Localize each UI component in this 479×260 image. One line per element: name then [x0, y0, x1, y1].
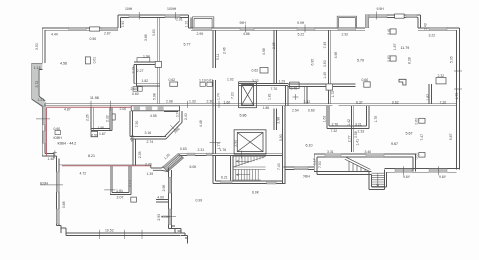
svg-text:2.77: 2.77: [347, 135, 351, 142]
wall bottom y232.8-235.6 x66-183: [66, 233, 183, 236]
wall vert x188 step down: [188, 15, 191, 28]
wall diagonal (181,121.3)-(165,137.5): [165, 121, 182, 139]
svg-text:2.32: 2.32: [438, 74, 445, 78]
svg-text:1.94: 1.94: [143, 55, 150, 59]
small box 2.32: [436, 78, 446, 84]
window left wall upper a: [43, 106, 46, 124]
winsym bathroom: [131, 197, 137, 202]
svg-text:2.40: 2.40: [184, 113, 188, 120]
svg-text:4.72: 4.72: [80, 172, 87, 176]
nook rect 1.94: [137, 58, 150, 62]
svg-text:3.50: 3.50: [35, 43, 39, 50]
wall corridor main y103.7-105.7 x43-456: [43, 104, 457, 106]
svg-text:9.67: 9.67: [391, 142, 398, 146]
window left wall upper b: [43, 131, 46, 143]
svg-text:0.60: 0.60: [152, 29, 156, 36]
svg-text:1.33: 1.33: [189, 99, 196, 103]
svg-text:2.70: 2.70: [332, 122, 339, 126]
wall corridor-south y153.2-155.5 x179.7-282: [180, 153, 283, 155]
svg-text:5.90: 5.90: [279, 134, 283, 141]
svg-text:3.72: 3.72: [35, 81, 39, 88]
L corner symbol: [399, 79, 406, 85]
wall int horiz y83.7-85.9 x134-160: [134, 84, 160, 86]
svg-text:9.5Н: 9.5Н: [377, 7, 385, 11]
svg-text:0.41: 0.41: [387, 28, 391, 35]
wall bottom-right y169 x384-459: [385, 169, 460, 173]
svg-text:0.60: 0.60: [415, 118, 419, 125]
svg-text:0.59: 0.59: [91, 133, 98, 137]
svg-text:0.61: 0.61: [92, 57, 96, 64]
window top-C2: [297, 27, 315, 30]
svg-text:0.60: 0.60: [415, 153, 419, 160]
svg-text:2.08: 2.08: [166, 100, 173, 104]
window left wall w1: [56, 172, 59, 192]
red left: [45, 108, 47, 156]
bay2 outline: [337, 16, 356, 27]
svg-text:7.30: 7.30: [135, 121, 139, 128]
door gray corridor south b: [206, 153, 212, 156]
svg-text:0.70: 0.70: [291, 86, 298, 90]
window bay1 band: [193, 27, 212, 30]
wall core right x282-285 y105-184: [282, 106, 285, 184]
svg-text:2.70: 2.70: [145, 163, 152, 167]
svg-text:1.90: 1.90: [98, 126, 105, 130]
wall divider x274-276 y30-83: [274, 30, 277, 83]
svg-text:8.28: 8.28: [407, 57, 411, 64]
svg-text:2.19: 2.19: [132, 67, 136, 74]
svg-text:7.90: 7.90: [121, 21, 125, 28]
svg-text:6.95: 6.95: [311, 59, 315, 66]
window left wall w2: [56, 209, 59, 224]
svg-text:1.62: 1.62: [322, 116, 326, 123]
wall wc-A vert x91-93 y107.6-130.6: [91, 108, 93, 131]
door gray corridor south a: [187, 153, 195, 156]
svg-text:1.31: 1.31: [184, 20, 188, 27]
svg-text:УВН: УВН: [303, 174, 310, 178]
wall int vert x157.7-159.7 y17.4-105.7: [158, 17, 160, 103]
stairs core lower flight: [233, 169, 261, 180]
svg-text:5.92: 5.92: [130, 135, 134, 142]
wall vestibule horiz y136.6-139.1 x130-166: [130, 137, 166, 140]
window lobby-top-1: [325, 154, 341, 157]
svg-text:2.91: 2.91: [176, 17, 183, 21]
svg-text:10.52: 10.52: [105, 229, 114, 233]
window top-C1: [240, 27, 254, 30]
svg-text:ЮЗН: ЮЗН: [162, 215, 171, 219]
svg-text:0.61: 0.61: [207, 78, 214, 82]
svg-text:3.88: 3.88: [62, 201, 66, 208]
svg-text:2.92: 2.92: [342, 32, 349, 36]
svg-text:3.21: 3.21: [355, 122, 362, 126]
svg-text:0.60: 0.60: [54, 127, 61, 131]
svg-text:ЮВН - 44.2: ЮВН - 44.2: [58, 142, 77, 146]
wall bottom end step: [181, 228, 188, 243]
svg-text:1.76: 1.76: [374, 116, 378, 123]
svg-text:0.99: 0.99: [196, 199, 203, 203]
svg-text:2.54: 2.54: [292, 108, 299, 112]
red bottom: [62, 165, 151, 167]
elevator E2: [234, 130, 266, 154]
svg-text:3.16: 3.16: [145, 131, 152, 135]
wall top-E y27.9 x420-459: [418, 28, 460, 30]
wall step-up x365: [365, 15, 368, 28]
entrance steps diagonal band: [163, 153, 184, 171]
svg-text:6.0К: 6.0К: [190, 165, 197, 169]
wall int vert x213-215.5 y30-153: [213, 30, 216, 154]
winsym 0.60 pair left: [133, 87, 137, 92]
winsym wc-B: [112, 114, 115, 120]
svg-text:0.62: 0.62: [252, 69, 259, 73]
svg-text:1.87: 1.87: [393, 43, 397, 50]
svg-text:2.00: 2.00: [120, 107, 127, 111]
svg-text:6.21: 6.21: [221, 176, 228, 180]
svg-text:3.42: 3.42: [304, 100, 311, 104]
svg-text:1.02: 1.02: [227, 77, 234, 81]
wall int vert x134-136 y64-84: [134, 64, 136, 86]
door gray 6.21 bottom: [221, 181, 232, 184]
svg-text:7.49: 7.49: [323, 42, 327, 49]
window bottom-right-2: [429, 169, 447, 173]
winsym topwall 0.50: [90, 27, 100, 31]
svg-text:0.50: 0.50: [90, 37, 97, 41]
svg-text:1.40: 1.40: [48, 157, 55, 161]
svg-text:2.02: 2.02: [106, 115, 110, 122]
svg-text:1.42: 1.42: [347, 119, 351, 126]
thick segmented wall y105.8-110.8 x131-179.5: [131, 106, 179, 111]
svg-text:1.18: 1.18: [34, 66, 41, 70]
window top-B1: [129, 15, 140, 18]
wall stair notch bottom y189: [369, 187, 387, 189]
svg-text:5.05: 5.05: [450, 56, 454, 63]
wall thin above red: [59, 164, 151, 166]
svg-text:5.98: 5.98: [153, 93, 157, 100]
small window symbol big room: [85, 57, 90, 64]
winsym divider box: [326, 84, 333, 90]
svg-text:ЮВН: ЮВН: [54, 136, 63, 140]
svg-text:2.33: 2.33: [358, 129, 365, 133]
wall stair notch left x369: [369, 172, 371, 190]
svg-text:6.10: 6.10: [306, 143, 313, 147]
svg-text:2.35: 2.35: [138, 151, 142, 158]
svg-text:5.77: 5.77: [184, 42, 191, 46]
svg-text:0.63: 0.63: [180, 147, 187, 151]
wall vert x304.7-306.9 y86-103.7: [305, 86, 307, 103]
window top-D2: [406, 15, 417, 18]
wall mr-bath bottom y126-128.3: [327, 126, 369, 128]
svg-text:3.86: 3.86: [144, 34, 148, 41]
small box 0.70: [290, 82, 300, 89]
wall core bottom y181-184 x213-285: [213, 181, 285, 184]
svg-text:2.96: 2.96: [162, 185, 166, 192]
bay1 outline: [192, 17, 214, 28]
svg-text:0.60: 0.60: [323, 60, 327, 67]
svg-text:9.6У: 9.6У: [439, 175, 447, 179]
svg-text:2.27: 2.27: [137, 69, 144, 73]
wall porch left x168.3-171.5 y167-230: [168, 168, 181, 233]
svg-text:7.32: 7.32: [331, 129, 338, 133]
svg-text:7.47: 7.47: [420, 134, 424, 141]
svg-text:1.74: 1.74: [216, 93, 220, 100]
svg-text:2.10: 2.10: [128, 180, 132, 187]
svg-text:2.98: 2.98: [276, 117, 280, 124]
wall stair notch right x384: [385, 169, 387, 189]
svg-text:5.87: 5.87: [449, 133, 453, 140]
winsym 0.60 box right-mid: [419, 118, 425, 123]
svg-text:0.62: 0.62: [169, 78, 176, 82]
svg-text:2.67: 2.67: [104, 31, 111, 35]
red room outline: [46, 107, 151, 166]
wall left step-out thick gray: [35, 66, 45, 105]
svg-text:4.99: 4.99: [157, 196, 164, 200]
wall vest lower vert x133-135.4 y139-166: [133, 139, 135, 166]
svg-text:2.26: 2.26: [86, 114, 90, 121]
winsym top small 2: [390, 56, 396, 61]
svg-text:1.45: 1.45: [323, 72, 327, 79]
svg-text:2.86: 2.86: [272, 42, 276, 49]
window top-E1: [429, 27, 447, 30]
svg-text:4.55: 4.55: [150, 114, 157, 118]
wall vert x420 step down: [418, 15, 421, 28]
svg-text:1.19: 1.19: [199, 78, 206, 82]
window porch wall w1: [169, 177, 172, 193]
wall bl jog: [57, 226, 66, 236]
window step x365: [365, 15, 368, 28]
winsym topD: [395, 14, 405, 18]
svg-text:2.74: 2.74: [147, 140, 154, 144]
svg-text:2.60: 2.60: [131, 87, 138, 91]
svg-text:4.87: 4.87: [64, 107, 71, 111]
wall wc bottom y128.4-130.6: [91, 128, 112, 130]
window entr-south: [294, 167, 308, 170]
wall x285.5-288 y85.5-105.7: [286, 86, 289, 106]
wall left outer x42-45: [42, 28, 45, 63]
svg-text:1.43: 1.43: [424, 23, 428, 30]
svg-text:ЮЗН: ЮЗН: [40, 182, 49, 186]
window porch wall w2: [169, 209, 172, 225]
svg-text:4.96: 4.96: [334, 52, 338, 59]
svg-text:0.60: 0.60: [387, 55, 391, 62]
svg-text:2.30: 2.30: [207, 100, 214, 104]
svg-text:3.22: 3.22: [252, 79, 259, 83]
wall left lower x42-45 y107-156: [42, 104, 45, 157]
svg-text:3.31: 3.31: [327, 150, 334, 154]
winsym top small 1: [390, 29, 396, 34]
wall mr-bath x326.9-329: [327, 106, 329, 129]
wall top-A horizontal x42-117: [42, 28, 118, 30]
ticks: [36, 12, 462, 239]
svg-text:4.48: 4.48: [199, 120, 203, 127]
window hatches (gray): [43, 15, 448, 225]
svg-text:3.40: 3.40: [365, 150, 372, 154]
svg-text:4.56: 4.56: [60, 62, 67, 66]
window lobby-top-2: [366, 154, 384, 157]
wall lobby right x413-415: [413, 154, 416, 172]
svg-text:0.58: 0.58: [354, 131, 358, 138]
winsym door x157.7: [155, 61, 161, 67]
svg-text:2.99: 2.99: [197, 32, 204, 36]
winsym lobby 0.60: [419, 153, 425, 158]
wall E1-top y83.4-85.5 x238-288: [239, 83, 289, 85]
wall top-C y27.9 x188-365: [188, 28, 365, 30]
svg-text:6.0К: 6.0К: [252, 190, 259, 194]
box 0.60 mid-right room: [364, 82, 370, 87]
window bottom-right-1: [395, 169, 412, 173]
winsym 0.61 box: [207, 82, 212, 86]
svg-text:1.82: 1.82: [426, 94, 430, 101]
wall lobby left step x314: [314, 154, 317, 174]
stairs lobby flight treads: [371, 173, 384, 187]
svg-text:2.31: 2.31: [198, 148, 205, 152]
svg-text:2.46: 2.46: [223, 47, 227, 54]
svg-text:1.91: 1.91: [116, 189, 123, 193]
svg-text:4.98: 4.98: [262, 48, 266, 55]
svg-text:1.76: 1.76: [220, 148, 227, 152]
small box 0.62: [170, 82, 178, 86]
svg-text:10tН: 10tН: [125, 7, 133, 11]
svg-text:0.60: 0.60: [362, 78, 369, 82]
svg-text:7.40: 7.40: [277, 163, 281, 170]
wall lobby top y154 x314-415: [314, 154, 415, 157]
small box wc: [91, 131, 98, 136]
wall left lower-2 x56.5-59 y158-228: [57, 159, 60, 226]
svg-text:7.20: 7.20: [231, 92, 235, 99]
wall core left x230.5-233: [231, 156, 234, 181]
svg-text:9.6У: 9.6У: [403, 175, 411, 179]
small box 0.60 left room: [55, 130, 61, 134]
svg-text:3.22: 3.22: [429, 34, 436, 38]
svg-text:1.82: 1.82: [142, 79, 149, 83]
svg-text:11.79: 11.79: [401, 46, 410, 50]
svg-text:1.81: 1.81: [268, 93, 272, 100]
window top-D1: [369, 15, 387, 18]
svg-text:99Н: 99Н: [240, 21, 247, 25]
svg-text:4.44: 4.44: [51, 33, 58, 37]
wall left step y156 x42-56.5: [42, 154, 56, 159]
window top-A1: [69, 27, 86, 30]
svg-text:1.70: 1.70: [455, 93, 459, 100]
wall vert x429-431.3 y89.4-103.7: [429, 84, 431, 104]
svg-text:5.22: 5.22: [298, 33, 305, 37]
svg-text:1.21: 1.21: [38, 98, 45, 102]
svg-text:5.67: 5.67: [406, 132, 413, 136]
winsym corner-room end boxes: [165, 108, 178, 112]
wall entr bottom y167-169.6 x283-314: [284, 167, 315, 170]
stairs core upper flight: [233, 157, 266, 170]
wall short x274-276 y108-130: [274, 109, 276, 130]
svg-text:5.70: 5.70: [357, 58, 364, 62]
wall closet stub y199.2-201.8 x155.8-168.3: [156, 199, 169, 202]
svg-text:1.72: 1.72: [331, 91, 335, 98]
svg-text:7.70: 7.70: [271, 87, 278, 91]
svg-text:5.11: 5.11: [216, 53, 220, 60]
svg-text:0.74: 0.74: [175, 110, 179, 117]
svg-text:2.07: 2.07: [117, 195, 124, 199]
svg-text:11.98: 11.98: [90, 96, 99, 100]
svg-text:1.86: 1.86: [263, 106, 270, 110]
wall right outer x456-459: [457, 28, 460, 170]
svg-text:0.60: 0.60: [308, 109, 315, 113]
svg-text:1.17: 1.17: [312, 158, 316, 165]
svg-text:5.86: 5.86: [240, 113, 247, 117]
wall int vert x328.3-330.7 y30-103.7: [328, 30, 330, 103]
wall mr-bath right x366.5-368.9: [367, 106, 369, 129]
svg-text:1.60: 1.60: [224, 100, 231, 104]
wall mr divider x351.3-353.7 y105.7-151: [351, 106, 353, 152]
small box 0.62b: [260, 68, 268, 74]
window top-C3 under bay2: [338, 27, 356, 30]
wall vestibule left x129-132 y111-137: [130, 111, 133, 137]
wall diag corner-room x179-182 y110.8-121.3: [179, 111, 182, 123]
wall jog red-end y168-170.3 x150.8-161.6: [151, 165, 168, 172]
elevator E1: [239, 82, 257, 108]
red top: [46, 106, 131, 108]
wall top-D y15 x365-420: [365, 15, 420, 17]
svg-text:1.39: 1.39: [147, 172, 154, 176]
svg-text:6.37: 6.37: [356, 101, 363, 105]
wall vert x117.5 step up: [118, 15, 121, 28]
window top-A2: [101, 27, 118, 30]
door gray core bottom: [267, 181, 277, 184]
wall y84-86.3 x288-356: [288, 84, 355, 86]
svg-text:7.50: 7.50: [318, 161, 322, 168]
svg-text:1.41: 1.41: [355, 139, 359, 146]
wall wc-B vert x110-112 y107.6-130.6: [110, 108, 112, 131]
winsym 1.19 box: [200, 82, 205, 86]
wall top-B band y15 x117-188: [118, 15, 188, 17]
svg-text:8.21: 8.21: [88, 154, 95, 158]
svg-text:1.29: 1.29: [279, 79, 286, 83]
svg-text:4.86: 4.86: [243, 32, 250, 36]
lobby diagonal ramp: [345, 157, 371, 172]
svg-text:9.9Н: 9.9Н: [297, 21, 305, 25]
svg-text:100tН: 100tН: [167, 7, 177, 11]
svg-text:2.92: 2.92: [233, 140, 237, 147]
wall room6.21 left x213: [213, 156, 216, 184]
window top-B2: [165, 15, 180, 18]
wall bathroom box 110-131 y166-194: [110, 166, 131, 194]
svg-text:7.20: 7.20: [440, 100, 447, 104]
svg-text:0.62: 0.62: [392, 100, 399, 104]
wall lobby bottom y171.5-174.3 x314-371: [314, 172, 371, 175]
svg-text:1.67: 1.67: [99, 132, 106, 136]
svg-text:0.60: 0.60: [132, 92, 139, 96]
wall int horiz y62-64.3 x134-160: [134, 62, 160, 65]
